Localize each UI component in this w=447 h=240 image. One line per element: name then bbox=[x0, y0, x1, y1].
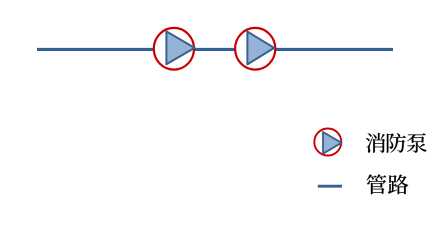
text label: 路 (lu) - legend "piping" bbox=[388, 174, 408, 194]
pump P2 impeller triangle bbox=[247, 32, 274, 65]
pump P2 circle bbox=[235, 28, 275, 70]
text label: 泵 (beng) - legend "fire pump" bbox=[407, 133, 427, 153]
text label: 消 (xiao) bbox=[366, 133, 385, 153]
legend pump symbol circle bbox=[314, 129, 341, 156]
pump P1 impeller triangle bbox=[166, 31, 194, 64]
legend pump symbol triangle bbox=[323, 132, 342, 154]
wire: main pipe line bbox=[37, 48, 393, 51]
pump P1 circle bbox=[154, 28, 194, 70]
text label: 防 (fang) bbox=[387, 133, 406, 153]
text label: 管 (guan) bbox=[366, 174, 386, 194]
legend pipe line sample bbox=[318, 185, 342, 188]
